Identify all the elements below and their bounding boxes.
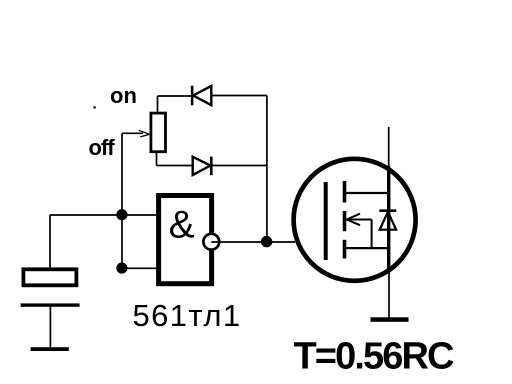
op-amp U1 NAND gate 561tl1 body: [159, 196, 212, 284]
Q1 body-to-source vertical: [371, 220, 373, 249]
capacitor C1 top plate: [23, 269, 76, 285]
wire capacitor to input node horizontal: [50, 214, 157, 216]
capacitor C1 lead: [49, 215, 51, 268]
wire bottom diode to right rail: [211, 165, 267, 167]
Q1 body diode cathode bar: [379, 209, 396, 212]
wire wiper vertical down to inputs: [121, 133, 123, 268]
svg-text:561тл1: 561тл1: [133, 298, 242, 333]
svg-text:&: &: [169, 204, 195, 247]
ground (left): [31, 347, 69, 351]
node junction dot A (upper input): [116, 209, 127, 220]
capacitor C1 ground stem: [49, 307, 51, 348]
Q1 body diode triangle: [380, 212, 396, 230]
wire top diode to right rail: [211, 95, 267, 97]
svg-text:on: on: [110, 83, 137, 108]
wire drain-source thick vertical inside Q1: [387, 166, 390, 270]
node junction dot B (lower input): [116, 263, 127, 274]
potentiometer wiper wire horizontal: [122, 132, 143, 134]
diode VD1 (top, pointing left): [192, 86, 211, 106]
wire on-net horizontal (pot top to top diode): [158, 95, 193, 97]
Q1 channel segment middle: [343, 211, 347, 231]
ground (right): [371, 317, 409, 322]
Q1 channel segment bottom: [343, 240, 347, 259]
wire right rail vertical (diodes to output node): [266, 96, 268, 242]
wire pot bottom stub: [156, 152, 158, 166]
potentiometer wiper arrowhead: [139, 130, 150, 137]
Q1 source connection line: [345, 247, 389, 249]
Q1 body arrow line: [347, 219, 372, 221]
node output junction dot: [261, 236, 272, 247]
Q1 gate bar: [324, 182, 328, 260]
svg-text:T=0.56RC: T=0.56RC: [294, 336, 455, 378]
stray ink dot: [94, 106, 96, 108]
Q1 channel segment top: [343, 181, 347, 203]
wire pot top stub: [157, 96, 159, 112]
wire lower input node to gate: [122, 267, 157, 269]
capacitor C1 bottom plate: [21, 303, 80, 306]
svg-text:off: off: [89, 135, 116, 160]
wire source bottom vertical to ground: [388, 270, 390, 318]
wire U1 output to MOSFET gate: [211, 241, 295, 243]
transistor Q1 MOSFET circle: [294, 159, 416, 281]
potentiometer R1 body: [151, 113, 166, 152]
wire drain top vertical: [388, 127, 390, 170]
U1 inversion bubble: [203, 234, 219, 250]
wire pot bottom to bottom diode: [157, 165, 193, 167]
Q1 drain connection line: [345, 192, 389, 194]
Q1 body arrowhead: [347, 214, 361, 226]
diode VD2 (bottom, pointing right): [193, 157, 212, 176]
